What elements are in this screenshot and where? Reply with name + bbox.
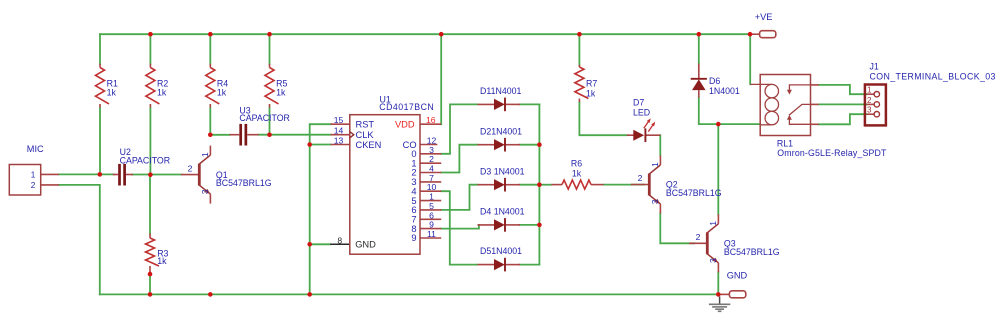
svg-text:3: 3 (200, 189, 210, 194)
svg-text:D4 1N4001: D4 1N4001 (480, 207, 525, 217)
svg-text:3: 3 (867, 106, 872, 115)
svg-text:CLK: CLK (356, 130, 375, 140)
svg-text:15: 15 (334, 115, 344, 125)
svg-text:RST: RST (356, 119, 375, 129)
svg-text:J1: J1 (870, 61, 879, 71)
svg-text:3: 3 (708, 258, 718, 263)
svg-text:BC547BRL1G: BC547BRL1G (724, 247, 780, 257)
svg-text:2: 2 (638, 173, 643, 183)
svg-text:13: 13 (334, 136, 344, 146)
svg-text:1k: 1k (157, 256, 167, 266)
svg-text:D11N4001: D11N4001 (480, 86, 522, 96)
svg-text:1: 1 (200, 152, 210, 157)
svg-text:14: 14 (334, 126, 344, 136)
svg-text:8: 8 (337, 235, 342, 245)
svg-text:1k: 1k (572, 168, 582, 178)
svg-text:D6: D6 (709, 76, 720, 86)
svg-text:D3 1N4001: D3 1N4001 (480, 166, 525, 176)
svg-text:CKEN: CKEN (356, 140, 382, 150)
svg-text:RL1: RL1 (777, 139, 793, 149)
svg-text:1: 1 (650, 162, 660, 167)
svg-text:1k: 1k (157, 87, 167, 97)
svg-text:LED: LED (633, 108, 650, 118)
svg-text:2: 2 (867, 96, 872, 105)
svg-text:11: 11 (427, 229, 436, 239)
svg-text:MIC: MIC (27, 144, 44, 154)
svg-text:1: 1 (867, 86, 872, 95)
svg-text:GND: GND (727, 271, 748, 281)
svg-text:1k: 1k (107, 87, 117, 97)
svg-text:2: 2 (31, 181, 36, 190)
svg-text:1k: 1k (276, 87, 286, 97)
svg-text:R6: R6 (571, 159, 582, 169)
svg-text:BC547BRL1G: BC547BRL1G (216, 178, 272, 188)
svg-text:16: 16 (426, 115, 436, 125)
svg-text:1N4001: 1N4001 (709, 86, 740, 96)
svg-text:Omron-G5LE-Relay_SPDT: Omron-G5LE-Relay_SPDT (777, 148, 887, 158)
svg-text:9: 9 (411, 233, 416, 243)
svg-text:1: 1 (31, 170, 36, 179)
svg-text:+VE: +VE (755, 12, 773, 22)
svg-text:CON_TERMINAL_BLOCK_03: CON_TERMINAL_BLOCK_03 (870, 72, 996, 82)
svg-text:CAPACITOR: CAPACITOR (120, 155, 171, 165)
svg-text:1k: 1k (217, 87, 227, 97)
svg-text:1: 1 (708, 221, 718, 226)
svg-text:3: 3 (650, 199, 660, 204)
svg-text:BC547BRL1G: BC547BRL1G (666, 188, 722, 198)
svg-text:D7: D7 (633, 98, 644, 108)
svg-text:D21N4001: D21N4001 (480, 126, 522, 136)
svg-text:R7: R7 (586, 79, 597, 89)
svg-text:2: 2 (188, 163, 193, 173)
svg-text:1k: 1k (586, 88, 596, 98)
svg-text:D51N4001: D51N4001 (480, 246, 522, 256)
svg-text:2: 2 (696, 232, 701, 242)
svg-text:CAPACITOR: CAPACITOR (239, 113, 290, 123)
svg-text:VDD: VDD (395, 119, 415, 129)
svg-text:GND: GND (355, 240, 376, 250)
svg-text:CD4017BCN: CD4017BCN (379, 102, 434, 112)
